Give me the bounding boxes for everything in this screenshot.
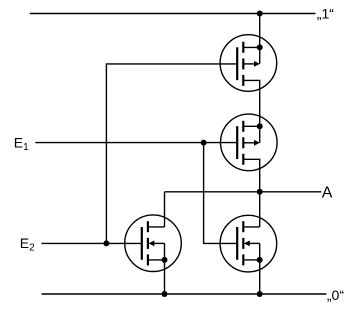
- svg-text:E1: E1: [14, 134, 29, 153]
- bottom supply rail "0": [42, 293, 327, 295]
- wire T4 source to ground rail: [259, 260, 261, 294]
- T3 source stub: [148, 259, 165, 261]
- junction dot top rail / T1 drain: [257, 11, 263, 17]
- T2 drain stub: [243, 125, 259, 127]
- wire E1 input: [35, 142, 237, 144]
- junction dot bottom rail / T3 source: [162, 291, 168, 297]
- T4 gate bar: [236, 227, 238, 260]
- T2 bulk-drain dot: [257, 123, 263, 129]
- T1 substrate arrow (p-channel, points right): [254, 61, 260, 67]
- T1 gate bar: [236, 47, 238, 80]
- wire E1 to T4 gate: [204, 143, 238, 244]
- T1 substrate lead: [243, 63, 254, 65]
- wire E2 input: [42, 242, 142, 244]
- T3 gate bar: [141, 227, 143, 260]
- T4 channel segment source: [242, 254, 244, 265]
- junction dot E1 branch: [201, 140, 207, 146]
- T4 channel segment drain: [242, 221, 244, 232]
- wire T1 source to T2 drain: [259, 91, 261, 126]
- transistor T4 (n-channel MOSFET, gate from E1): [220, 215, 277, 272]
- svg-text:„1“: „1“: [317, 6, 334, 22]
- T1 drain stub: [243, 46, 259, 48]
- T4 bulk-source dot: [257, 257, 263, 263]
- T1 channel segment drain: [242, 42, 244, 53]
- T1 source stub: [243, 80, 259, 91]
- T3 substrate arrow (n-channel, points left): [148, 241, 154, 247]
- node A line: [165, 191, 322, 193]
- T1 channel segment bulk: [242, 58, 244, 69]
- T2 substrate arrow (p-channel, points right): [254, 140, 260, 146]
- T4 envelope circle: [220, 215, 277, 272]
- T4 substrate lead: [249, 242, 260, 244]
- T3 channel segment bulk: [147, 238, 149, 249]
- junction dot E2 branch: [103, 240, 109, 246]
- T4 channel segment bulk: [242, 238, 244, 249]
- T2 channel segment drain: [242, 121, 244, 132]
- wire T3 source to ground rail: [164, 260, 166, 294]
- svg-text:A: A: [322, 185, 333, 202]
- T3 drain stub: [148, 226, 165, 228]
- wire T2 source to node A and T4 drain: [259, 171, 261, 227]
- T4 source stub: [243, 259, 259, 261]
- T2 substrate lead: [243, 142, 254, 144]
- T3 channel segment drain: [147, 221, 149, 232]
- T2 channel segment bulk: [242, 137, 244, 148]
- T3 envelope circle: [125, 215, 182, 272]
- T3 channel segment source: [147, 254, 149, 265]
- T1 channel segment source: [242, 75, 244, 86]
- T2 envelope circle: [221, 114, 278, 171]
- top supply rail "1": [30, 13, 316, 15]
- T4 substrate arrow (n-channel, points left): [244, 241, 250, 247]
- svg-text:E2: E2: [20, 235, 35, 254]
- transistor T2 (p-channel MOSFET, gate from E1): [221, 114, 278, 171]
- T3 substrate lead: [153, 242, 164, 244]
- svg-text:„0“: „0“: [327, 287, 344, 303]
- T1 bulk tie wire: [259, 47, 261, 64]
- T2 channel segment source: [242, 154, 244, 165]
- wire E2 to T1 gate: [106, 64, 237, 244]
- T3 bulk tie wire: [164, 243, 166, 260]
- T1 envelope circle: [220, 35, 277, 92]
- junction dot bottom rail / T4 source: [257, 291, 263, 297]
- T1 bulk-drain dot: [257, 44, 263, 50]
- T2 bulk tie wire: [259, 126, 261, 143]
- wire top rail to T1 drain: [259, 14, 261, 48]
- T3 bulk-source dot: [162, 257, 168, 263]
- T2 gate bar: [236, 126, 238, 159]
- T4 drain stub: [243, 226, 259, 228]
- T2 source stub: [243, 159, 259, 170]
- T4 bulk tie wire: [259, 243, 261, 260]
- transistor T3 (n-channel MOSFET, gate from E2): [125, 215, 182, 272]
- junction dot node A: [257, 189, 263, 195]
- transistor T1 (p-channel MOSFET, gate from E2): [220, 35, 277, 92]
- wire node A to T3 drain: [164, 192, 166, 227]
